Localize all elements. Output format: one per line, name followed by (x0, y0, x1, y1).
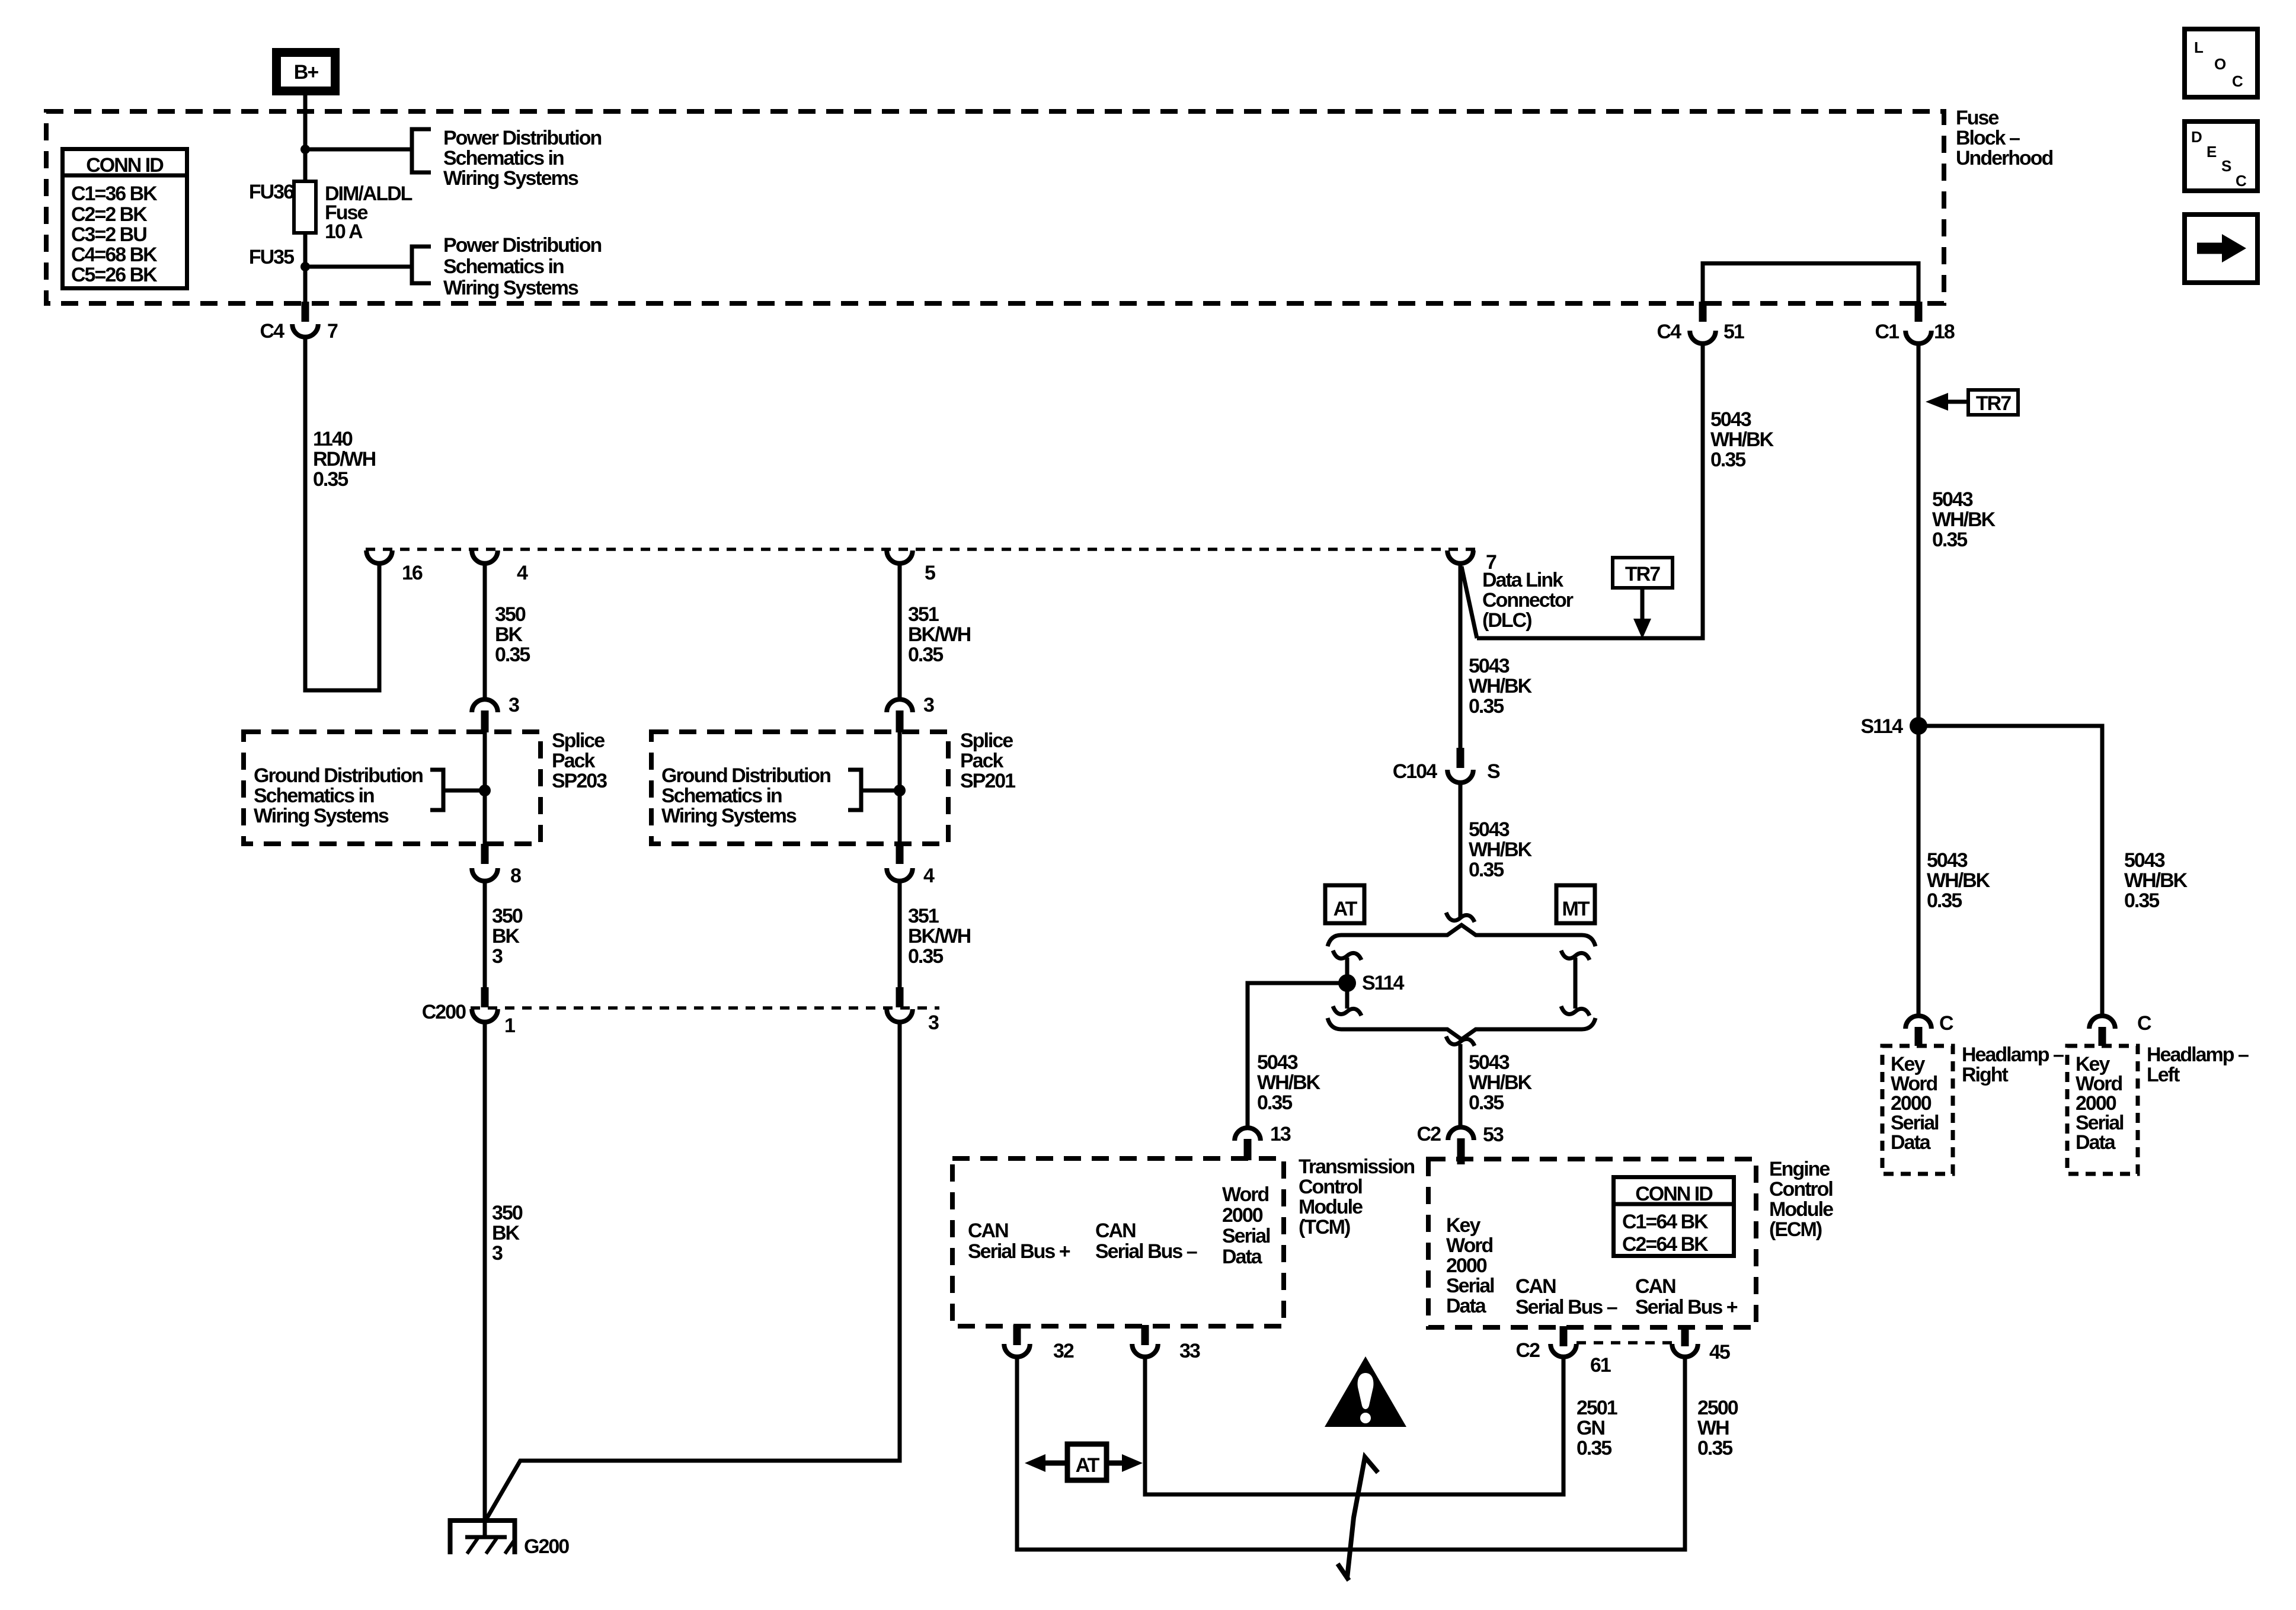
svg-text:3: 3 (923, 694, 934, 716)
svg-text:8: 8 (510, 865, 521, 887)
svg-text:Ground Distribution: Ground Distribution (661, 764, 830, 787)
svg-text:45: 45 (1709, 1341, 1730, 1363)
svg-text:Engine: Engine (1769, 1158, 1830, 1180)
svg-text:BK/WH: BK/WH (908, 623, 971, 646)
svg-text:13: 13 (1270, 1123, 1291, 1145)
svg-text:L: L (2194, 39, 2204, 56)
svg-text:Schematics in: Schematics in (661, 785, 782, 807)
svg-text:WH/BK: WH/BK (1932, 508, 1996, 531)
svg-text:350: 350 (495, 603, 526, 626)
svg-text:CONN ID: CONN ID (1635, 1183, 1713, 1205)
svg-text:5: 5 (925, 562, 935, 584)
svg-text:S114: S114 (1362, 972, 1405, 994)
svg-text:7: 7 (327, 320, 338, 343)
svg-text:D: D (2191, 128, 2202, 146)
svg-text:AT: AT (1334, 898, 1358, 920)
svg-text:2000: 2000 (1222, 1204, 1263, 1227)
svg-text:MT: MT (1562, 898, 1590, 920)
svg-text:33: 33 (1179, 1340, 1200, 1362)
svg-text:C1=36 BK: C1=36 BK (71, 183, 158, 205)
svg-text:WH: WH (1697, 1417, 1729, 1439)
svg-text:WH/BK: WH/BK (1927, 869, 1991, 892)
svg-text:WH/BK: WH/BK (1469, 675, 1533, 697)
svg-text:32: 32 (1053, 1340, 1074, 1362)
svg-text:C4=68 BK: C4=68 BK (71, 244, 158, 266)
svg-text:2000: 2000 (1446, 1254, 1487, 1277)
svg-text:Word: Word (1222, 1183, 1268, 1206)
svg-text:4: 4 (923, 865, 935, 887)
svg-text:C: C (2236, 172, 2247, 190)
svg-text:C5=26 BK: C5=26 BK (71, 264, 158, 286)
svg-text:5043: 5043 (1469, 1051, 1510, 1074)
svg-text:O: O (2214, 55, 2226, 73)
svg-text:(ECM): (ECM) (1769, 1218, 1822, 1241)
svg-text:Control: Control (1769, 1178, 1833, 1201)
svg-text:WH/BK: WH/BK (2124, 869, 2188, 892)
svg-text:SP203: SP203 (552, 770, 607, 792)
svg-text:Splice: Splice (552, 729, 605, 752)
svg-text:351: 351 (908, 603, 939, 626)
svg-text:Module: Module (1769, 1198, 1833, 1221)
svg-text:16: 16 (402, 562, 423, 584)
svg-text:G200: G200 (524, 1535, 569, 1558)
svg-text:3: 3 (492, 1242, 503, 1265)
svg-text:S: S (2221, 157, 2231, 175)
svg-text:18: 18 (1934, 321, 1955, 343)
svg-text:Wiring Systems: Wiring Systems (254, 805, 389, 827)
svg-text:3: 3 (928, 1012, 939, 1034)
svg-text:Serial Bus +: Serial Bus + (1635, 1296, 1738, 1318)
svg-text:Serial: Serial (1222, 1225, 1270, 1247)
svg-text:Wiring Systems: Wiring Systems (443, 167, 578, 190)
svg-text:2501: 2501 (1576, 1397, 1617, 1419)
svg-text:0.35: 0.35 (495, 644, 530, 666)
svg-text:CAN: CAN (1515, 1275, 1556, 1298)
svg-text:SP201: SP201 (960, 770, 1015, 792)
svg-text:0.35: 0.35 (1469, 695, 1504, 718)
svg-text:TR7: TR7 (1976, 392, 2011, 415)
svg-text:C4: C4 (1657, 321, 1682, 343)
svg-text:0.35: 0.35 (1469, 1092, 1504, 1114)
svg-text:E: E (2207, 143, 2217, 161)
svg-text:Transmission: Transmission (1299, 1156, 1414, 1178)
svg-text:BK: BK (492, 925, 520, 948)
svg-text:2500: 2500 (1697, 1397, 1738, 1419)
svg-text:CAN: CAN (1095, 1219, 1136, 1242)
svg-text:BK: BK (495, 623, 523, 646)
svg-text:Control: Control (1299, 1176, 1362, 1198)
svg-text:Schematics in: Schematics in (443, 255, 564, 278)
svg-text:0.35: 0.35 (908, 644, 943, 666)
svg-text:53: 53 (1483, 1124, 1504, 1146)
svg-text:BK/WH: BK/WH (908, 925, 971, 948)
svg-text:CAN: CAN (968, 1219, 1008, 1242)
svg-text:Key: Key (1446, 1214, 1480, 1237)
svg-text:Data Link: Data Link (1482, 569, 1563, 591)
svg-text:0.35: 0.35 (313, 468, 348, 491)
svg-text:1140: 1140 (313, 428, 353, 450)
svg-text:0.35: 0.35 (1469, 859, 1504, 881)
svg-text:5043: 5043 (1932, 488, 1973, 511)
svg-text:Module: Module (1299, 1196, 1363, 1218)
svg-text:Serial Bus –: Serial Bus – (1095, 1240, 1197, 1263)
svg-text:WH/BK: WH/BK (1469, 1071, 1533, 1094)
svg-text:1: 1 (504, 1014, 515, 1037)
svg-text:Underhood: Underhood (1956, 147, 2053, 169)
svg-text:0.35: 0.35 (1710, 449, 1745, 471)
svg-text:Block –: Block – (1956, 127, 2020, 149)
svg-text:Schematics in: Schematics in (443, 147, 564, 169)
svg-text:Wiring Systems: Wiring Systems (661, 805, 797, 827)
svg-text:Left: Left (2147, 1064, 2180, 1086)
svg-text:5043: 5043 (1710, 408, 1751, 431)
svg-text:0.35: 0.35 (1697, 1437, 1732, 1459)
svg-text:Schematics in: Schematics in (254, 785, 374, 807)
svg-text:Data: Data (2076, 1131, 2116, 1154)
svg-text:Data: Data (1446, 1295, 1487, 1317)
svg-text:GN: GN (1576, 1417, 1604, 1439)
svg-text:Serial: Serial (1446, 1275, 1494, 1297)
svg-text:B+: B+ (294, 61, 319, 84)
svg-text:0.35: 0.35 (1576, 1437, 1611, 1459)
svg-text:Pack: Pack (960, 750, 1003, 772)
svg-text:S114: S114 (1860, 715, 1903, 738)
svg-text:10 A: 10 A (325, 220, 363, 243)
svg-text:351: 351 (908, 905, 939, 927)
svg-text:3: 3 (509, 694, 519, 716)
svg-text:5043: 5043 (1927, 849, 1968, 872)
svg-text:5043: 5043 (1257, 1051, 1298, 1074)
svg-text:Data: Data (1222, 1246, 1263, 1268)
svg-text:C3=2 BU: C3=2 BU (71, 223, 146, 246)
svg-text:AT: AT (1076, 1454, 1100, 1477)
svg-text:C2=64 BK: C2=64 BK (1622, 1233, 1709, 1256)
svg-text:TR7: TR7 (1625, 563, 1660, 585)
svg-text:51: 51 (1723, 321, 1744, 343)
svg-text:Serial Bus +: Serial Bus + (968, 1240, 1070, 1263)
svg-text:FU36: FU36 (249, 181, 294, 203)
svg-text:Headlamp –: Headlamp – (2147, 1044, 2249, 1066)
svg-text:C1: C1 (1875, 321, 1900, 343)
svg-text:BK: BK (492, 1222, 520, 1244)
svg-text:WH/BK: WH/BK (1469, 838, 1533, 861)
svg-text:FU35: FU35 (249, 246, 294, 268)
svg-text:61: 61 (1590, 1354, 1611, 1377)
svg-text:Data: Data (1891, 1131, 1932, 1154)
svg-text:Power Distribution: Power Distribution (443, 234, 601, 257)
svg-text:(DLC): (DLC) (1482, 609, 1531, 632)
svg-text:RD/WH: RD/WH (313, 448, 376, 470)
svg-text:C2: C2 (1516, 1339, 1540, 1362)
svg-text:Power Distribution: Power Distribution (443, 127, 601, 149)
svg-text:Word: Word (1446, 1234, 1492, 1257)
svg-text:C1=64 BK: C1=64 BK (1622, 1211, 1709, 1233)
svg-text:0.35: 0.35 (1932, 529, 1967, 551)
svg-text:5043: 5043 (1469, 655, 1510, 677)
svg-text:Pack: Pack (552, 750, 595, 772)
svg-text:Splice: Splice (960, 729, 1013, 752)
svg-text:4: 4 (517, 562, 528, 584)
svg-text:Headlamp –: Headlamp – (1962, 1044, 2064, 1066)
svg-text:C4: C4 (260, 320, 285, 343)
svg-text:3: 3 (492, 945, 503, 968)
svg-text:Wiring Systems: Wiring Systems (443, 277, 578, 299)
svg-text:5043: 5043 (1469, 818, 1510, 841)
svg-text:CONN ID: CONN ID (86, 154, 164, 177)
svg-text:0.35: 0.35 (1257, 1092, 1292, 1114)
svg-text:5043: 5043 (2124, 849, 2165, 872)
svg-text:WH/BK: WH/BK (1257, 1071, 1321, 1094)
svg-text:C200: C200 (422, 1001, 466, 1023)
svg-text:CAN: CAN (1635, 1275, 1675, 1298)
svg-text:WH/BK: WH/BK (1710, 428, 1774, 451)
svg-text:C: C (2137, 1012, 2151, 1035)
svg-text:C104: C104 (1393, 760, 1437, 783)
svg-text:S: S (1487, 760, 1500, 783)
svg-text:Serial Bus –: Serial Bus – (1515, 1296, 1617, 1318)
svg-text:0.35: 0.35 (2124, 889, 2159, 912)
svg-text:0.35: 0.35 (908, 945, 943, 968)
svg-text:C: C (1939, 1012, 1953, 1035)
svg-text:(TCM): (TCM) (1299, 1216, 1350, 1238)
svg-text:C: C (2232, 72, 2243, 90)
svg-text:C2: C2 (1417, 1123, 1441, 1145)
svg-text:Right: Right (1962, 1064, 2009, 1086)
svg-text:Ground Distribution: Ground Distribution (254, 764, 423, 787)
svg-text:350: 350 (492, 1202, 523, 1224)
svg-text:Fuse: Fuse (1956, 107, 1998, 129)
svg-text:350: 350 (492, 905, 523, 927)
svg-text:C2=2 BK: C2=2 BK (71, 203, 148, 226)
svg-text:0.35: 0.35 (1927, 889, 1962, 912)
svg-text:Connector: Connector (1482, 589, 1574, 612)
